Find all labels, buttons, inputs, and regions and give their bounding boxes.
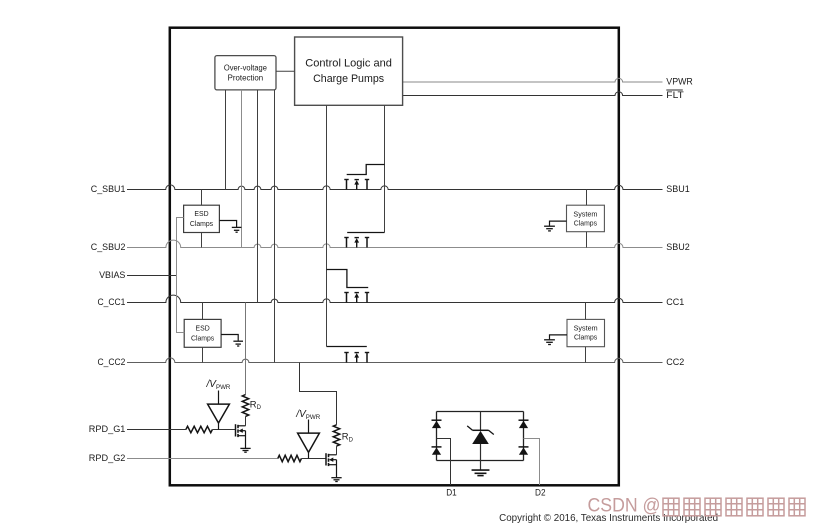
svg-text:System: System <box>574 326 598 333</box>
svg-text:CC1: CC1 <box>666 297 684 307</box>
svg-text:D1: D1 <box>446 487 457 497</box>
svg-text:CC2: CC2 <box>666 357 684 367</box>
svg-text:Clamps: Clamps <box>191 335 215 342</box>
svg-text:Clamps: Clamps <box>574 220 598 227</box>
svg-text:System: System <box>573 211 597 218</box>
svg-text:Control Logic and: Control Logic and <box>305 58 392 70</box>
svg-text:D2: D2 <box>535 487 546 497</box>
svg-text:ESD: ESD <box>194 211 208 218</box>
svg-text:RPD_G1: RPD_G1 <box>89 424 126 434</box>
svg-text:C_CC2: C_CC2 <box>98 357 126 367</box>
svg-text:Protection: Protection <box>228 73 264 82</box>
svg-text:RPD_G2: RPD_G2 <box>89 453 126 463</box>
svg-text:C_SBU1: C_SBU1 <box>91 184 126 194</box>
svg-text:Clamps: Clamps <box>574 335 598 342</box>
svg-text:SBU2: SBU2 <box>666 242 690 252</box>
svg-text:Over-voltage: Over-voltage <box>224 63 267 72</box>
svg-text:Charge Pumps: Charge Pumps <box>313 73 384 85</box>
svg-text:ESD: ESD <box>196 325 210 332</box>
svg-text:VPWR: VPWR <box>666 77 693 87</box>
svg-text:CSDN @: CSDN @ <box>588 495 661 516</box>
svg-text:C_SBU2: C_SBU2 <box>91 242 126 252</box>
svg-text:FLT: FLT <box>666 90 684 100</box>
svg-text:C_CC1: C_CC1 <box>98 297 126 307</box>
svg-text:VBIAS: VBIAS <box>99 270 125 280</box>
svg-text:SBU1: SBU1 <box>666 184 690 194</box>
svg-text:Clamps: Clamps <box>190 221 214 228</box>
